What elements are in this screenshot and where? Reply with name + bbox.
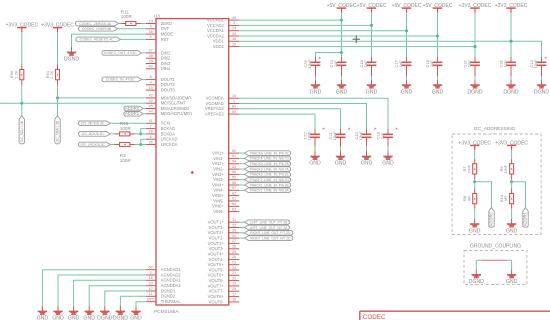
svg-text:LRCKAD: LRCKAD: [161, 137, 178, 142]
svg-text:VOUT3+: VOUT3+: [208, 241, 225, 246]
resistor R10 0R: [510, 188, 514, 208]
junction ADDR0: [473, 180, 476, 183]
svg-text:48: 48: [149, 30, 153, 34]
pin 49 VCCAD1: [207, 16, 239, 23]
pin 13 ZERO: [146, 19, 173, 26]
net flag ADDR1: [523, 208, 529, 228]
svg-text:60: 60: [232, 105, 236, 109]
svg-text:100R: 100R: [120, 126, 132, 131]
pin 11 DGND2: [146, 292, 176, 299]
wire DGND to pin row y=296.3: [120, 296, 145, 306]
wire VIN row 179.7: [239, 179, 244, 181]
wire GND to pin row y=269.7: [42, 270, 145, 306]
svg-text:PCM3168A: PCM3168A: [154, 309, 179, 315]
svg-text:GND: GND: [336, 89, 348, 95]
net flag RIGHT_LINE_OUT_P/7.2D: [245, 231, 293, 236]
svg-text:27: 27: [232, 239, 236, 243]
power +3V3_CODEC col x=511.0: [495, 3, 528, 13]
net flag I2C_SCL/1.3B: [19, 116, 24, 144]
wire flag to R15: [110, 133, 114, 135]
wire flag to DOUT1: [142, 78, 146, 80]
capacitor C18 1uF: [433, 59, 443, 68]
capacitor C17 1uF: [402, 59, 412, 68]
svg-text:RIGHT_LINE_OUT_N/7.2C: RIGHT_LINE_OUT_N/7.2C: [250, 236, 291, 240]
pin 4 RST: [146, 35, 170, 42]
svg-text:13: 13: [149, 19, 153, 23]
svg-text:63: 63: [232, 207, 236, 211]
pin 59 AREFAD2: [205, 110, 239, 117]
svg-text:*: *: [395, 127, 398, 134]
wire cap to ground: [371, 68, 373, 76]
net flag TRACK1_LINE_IN_P/6.2B: [245, 183, 291, 188]
wire VCCAD2 row to +5V col2: [239, 24, 371, 26]
power +3V3_CODEC (R60 column): [5, 23, 38, 33]
svg-text:DGND: DGND: [534, 89, 550, 95]
svg-text:11: 11: [149, 292, 153, 296]
ground GND (bottom): [37, 306, 49, 320]
svg-text:33: 33: [149, 282, 153, 286]
wire resistor to ground: [511, 209, 513, 219]
svg-text:TRACK3_LINE_IN_P/6.7B: TRACK3_LINE_IN_P/6.7B: [250, 162, 290, 166]
capacitor C31 1uF: [506, 59, 516, 68]
svg-text:1uF: 1uF: [429, 60, 434, 67]
svg-text:*: *: [318, 56, 321, 63]
svg-text:VOUT3-: VOUT3-: [209, 246, 225, 251]
ground GND (bottom): [52, 306, 64, 320]
svg-text:53: 53: [232, 165, 236, 169]
svg-text:VOUT1+: VOUT1+: [208, 220, 225, 225]
svg-text:18: 18: [232, 298, 236, 302]
pin 30 VOUT2-: [209, 234, 240, 241]
svg-text:VOUT8+: VOUT8+: [208, 294, 225, 299]
svg-text:62: 62: [232, 191, 236, 195]
svg-text:37: 37: [149, 49, 153, 53]
svg-text:VOUT7+: VOUT7+: [208, 283, 225, 288]
svg-text:MODE: MODE: [161, 32, 174, 37]
ground DGND: [503, 80, 519, 96]
svg-text:*: *: [545, 56, 548, 63]
wire VIN row 153.1: [239, 152, 244, 154]
svg-text:32: 32: [232, 223, 236, 227]
wire ADDR1 to pin 44: [143, 113, 146, 115]
svg-text:64: 64: [232, 202, 236, 206]
I2C_ADDRESSING section box: [452, 134, 541, 234]
svg-text:29: 29: [232, 229, 236, 233]
pin 26 VOUT4-: [209, 255, 240, 262]
wire VOUT row 238.1: [239, 237, 244, 239]
wire supply to resistor: [474, 150, 476, 159]
svg-text:DIN4: DIN4: [161, 66, 171, 71]
svg-text:GND: GND: [52, 316, 64, 320]
wire VIN row 169.1: [239, 168, 244, 170]
ground GND: [336, 80, 348, 96]
pin 27 VOUT3+: [208, 239, 240, 246]
pin 3 VCCAD2: [207, 21, 239, 28]
wire supply column: [406, 13, 408, 57]
svg-text:52: 52: [232, 149, 236, 153]
svg-text:41: 41: [149, 119, 153, 123]
wire R61 top: [57, 32, 59, 64]
svg-text:DGND: DGND: [503, 89, 519, 95]
svg-text:10uF: 10uF: [332, 131, 337, 141]
resistor R9 DNF: [510, 159, 514, 179]
svg-text:AGNDDA2: AGNDDA2: [161, 283, 182, 288]
svg-text:DIN3: DIN3: [161, 61, 171, 66]
pin 24 VCCDA1: [207, 27, 239, 34]
wire junction to ADDR1 flag: [512, 182, 526, 208]
svg-text:CODEC_ZERO/5.4D: CODEC_ZERO/5.4D: [79, 22, 112, 26]
svg-text:9: 9: [150, 81, 152, 85]
svg-text:VOUT2-: VOUT2-: [209, 236, 225, 241]
resistor R7 DNF: [473, 159, 477, 179]
ground DGND (coupling): [469, 270, 485, 286]
pin 25 VOUT4+: [208, 250, 240, 257]
svg-text:DNF: DNF: [503, 164, 508, 173]
pin 61 VIN5-: [213, 197, 239, 204]
wire GND to pin row y=285.7: [89, 286, 146, 306]
power +3V3_CODEC col x=475.0: [459, 3, 492, 13]
svg-text:10uF: 10uF: [533, 59, 538, 69]
pin 39 DIN3: [146, 59, 171, 66]
wire VCOM row 108.8 to cap C21: [239, 109, 340, 129]
svg-text:CODEC_IN_4T/3C: CODEC_IN_4T/3C: [106, 78, 136, 82]
wire LRCK branch to LRCKAD: [141, 139, 146, 144]
wire R15 to BCKDA: [135, 133, 146, 135]
svg-text:GND: GND: [432, 89, 444, 95]
resistor R8 0R: [473, 188, 477, 208]
pin 37 DIN1: [146, 49, 171, 56]
ground GND: [469, 219, 481, 235]
ground GND (bottom): [68, 306, 80, 320]
svg-text:VIN4+: VIN4+: [212, 182, 224, 187]
net flag ADDR0 (pin 45): [124, 106, 143, 111]
wire R60 bottom to SCL net: [21, 85, 23, 116]
svg-text:50: 50: [149, 266, 153, 270]
svg-text:DGND: DGND: [113, 316, 129, 320]
svg-text:*: *: [322, 127, 325, 134]
ground GND (C19): [361, 151, 373, 167]
svg-text:25: 25: [232, 250, 236, 254]
capacitor C36 10uF (bulk): [316, 53, 342, 58]
power +5V_CODEC col x=406.5: [392, 3, 422, 13]
svg-text:RIGHT_LINE_OUT_P/7.2D: RIGHT_LINE_OUT_P/7.2D: [250, 231, 291, 235]
svg-text:ADDR1: ADDR1: [523, 211, 528, 226]
svg-text:1uF: 1uF: [467, 60, 472, 67]
pin 31 VOUT1+: [208, 218, 240, 225]
net flag TRACK3_LINE_IN_P/6.7B: [245, 162, 291, 167]
svg-text:DGND: DGND: [469, 279, 485, 285]
svg-text:GND: GND: [361, 161, 373, 167]
net flag CODEC_ZERO/5.4D: [75, 21, 118, 26]
svg-text:LRCKDA: LRCKDA: [161, 142, 178, 147]
svg-text:5: 5: [150, 25, 152, 29]
svg-text:VREFAD2: VREFAD2: [205, 106, 225, 111]
svg-text:40: 40: [149, 65, 153, 69]
svg-text:TRACK2_LINE_IN_P/6.2E: TRACK2_LINE_IN_P/6.2E: [250, 173, 290, 177]
svg-text:47: 47: [149, 287, 153, 291]
svg-text:VIN6+: VIN6+: [212, 204, 224, 209]
wire supply column: [341, 13, 343, 57]
wire R11 to pin 13: [141, 23, 146, 25]
svg-text:GND: GND: [382, 161, 394, 167]
svg-text:2.2K: 2.2K: [13, 70, 18, 79]
junction col x=371.5: [370, 24, 373, 27]
svg-text:10: 10: [149, 86, 153, 90]
svg-text:VCCAD2: VCCAD2: [207, 23, 224, 28]
capacitor C28 1uF: [383, 131, 393, 140]
wire flag to DIN1: [142, 52, 146, 54]
wire C13 to ground: [541, 68, 543, 76]
svg-text:I2C_SCL/1.3B: I2C_SCL/1.3B: [20, 120, 24, 142]
svg-text:46: 46: [232, 37, 236, 41]
svg-text:AGNDAD1: AGNDAD1: [161, 267, 182, 272]
svg-text:I2C_SDA/1.3B: I2C_SDA/1.3B: [56, 120, 60, 142]
svg-text:38: 38: [149, 54, 153, 58]
svg-text:VIN3-: VIN3-: [213, 177, 224, 182]
junction SDA: [56, 96, 59, 99]
pin 29 VOUT2+: [208, 229, 240, 236]
svg-text:I2S_BCK/5.3C: I2S_BCK/5.3C: [82, 132, 105, 136]
wire R61 bottom to SDA net: [57, 85, 59, 116]
pin 32 VOUT1-: [209, 223, 240, 230]
svg-text:56: 56: [232, 170, 236, 174]
svg-text:OVF: OVF: [161, 26, 170, 31]
pin 18 AGNDDA1: [146, 276, 182, 283]
net flag I2S_BCK/5.3C: [79, 132, 111, 137]
resistor R61 2.2K: [56, 64, 60, 84]
pin 10 DOUT3: [146, 86, 176, 93]
wire junction to ADDR0 flag: [475, 182, 492, 208]
power +3V3_CODEC (R9 column): [495, 140, 528, 150]
svg-text:1: 1: [233, 99, 235, 103]
wire flag OVER to pin 5: [118, 28, 146, 30]
junction col x=341.5: [340, 19, 343, 22]
pin 9 DOUT2: [146, 81, 176, 88]
wire supply column: [474, 13, 476, 57]
GROUND_COUPLING section box: [464, 250, 527, 284]
junction col x=475.0: [474, 45, 477, 48]
wire flag to R3: [110, 144, 114, 146]
svg-text:VOUT5+: VOUT5+: [208, 262, 225, 267]
pin 41 SCKI: [146, 119, 171, 126]
ground GND: [506, 219, 518, 235]
svg-text:0R: 0R: [503, 196, 508, 201]
svg-text:AGNDAD2: AGNDAD2: [161, 272, 182, 277]
capacitor C15 1uF: [367, 59, 377, 68]
svg-text:MS/ADR0/MD0: MS/ADR0/MD0: [161, 106, 190, 111]
svg-text:GND: GND: [469, 228, 481, 234]
resistor R11 100R: [121, 22, 141, 26]
svg-text:51: 51: [232, 154, 236, 158]
ground DGND (MODE): [64, 47, 80, 63]
wire flag RESET to pin 4: [121, 38, 146, 40]
svg-text:4: 4: [150, 35, 152, 39]
svg-text:36: 36: [149, 140, 153, 144]
svg-text:DOUT1: DOUT1: [161, 77, 176, 82]
svg-text:100R: 100R: [120, 158, 132, 163]
wire VOUT row 222.2: [239, 221, 244, 223]
pin 28 BCKDA: [146, 130, 175, 137]
ground GND (bottom): [83, 306, 95, 320]
svg-text:VDD2: VDD2: [213, 44, 225, 49]
svg-text:I2S_LRCK/5.3C: I2S_LRCK/5.3C: [81, 143, 106, 147]
ground GND (coupling): [506, 270, 518, 286]
junction BCK: [139, 132, 142, 135]
net flag TRACK2_LINE_IN_P/6.2E: [245, 172, 291, 177]
wire GND to pin row y=301.7: [136, 302, 146, 306]
net bridge DGND-GND: [476, 259, 511, 261]
svg-text:DGND2: DGND2: [161, 294, 176, 299]
wire flag to R11: [119, 23, 121, 25]
net flag I2S_LRCK/5.3C: [79, 142, 111, 147]
wire VIN row 163.8: [239, 163, 244, 165]
capacitor C32 1uF: [470, 59, 480, 68]
svg-text:GND: GND: [83, 316, 95, 320]
power +3V3_CODEC (R7 column): [458, 140, 491, 150]
svg-text:DIN2: DIN2: [161, 56, 171, 61]
svg-text:26: 26: [232, 255, 236, 259]
svg-text:31: 31: [232, 218, 236, 222]
svg-text:30: 30: [232, 234, 236, 238]
part origin mark U3: [191, 171, 194, 174]
svg-text:21: 21: [232, 271, 236, 275]
svg-text:10uF: 10uF: [307, 59, 312, 69]
svg-text:GND: GND: [335, 161, 347, 167]
svg-text:2: 2: [150, 271, 152, 275]
sheet frame corner: [360, 311, 550, 320]
svg-text:MDO/ADR1/MD1: MDO/ADR1/MD1: [161, 111, 193, 116]
wire VIN row 158.4: [239, 157, 244, 159]
wire VIN row 190.3: [239, 189, 244, 191]
svg-text:TRACK2_LINE_IN_N/6.2D: TRACK2_LINE_IN_N/6.2D: [249, 178, 289, 182]
svg-text:GND: GND: [309, 161, 321, 167]
svg-text:28: 28: [149, 130, 153, 134]
net flag CODEC_RESET/5.4C: [76, 37, 121, 42]
svg-text:SCKI: SCKI: [161, 121, 171, 126]
svg-text:15: 15: [232, 94, 236, 98]
wire R3 to LRCKDA: [135, 144, 146, 146]
svg-text:MDI/SDA/DEMP: MDI/SDA/DEMP: [161, 95, 192, 100]
wire DGND to pin row y=291.0: [105, 291, 146, 306]
wire MODE pin 48 to DGND: [72, 34, 146, 47]
svg-text:DOUT2: DOUT2: [161, 82, 176, 87]
svg-text:ADDR0: ADDR0: [489, 211, 494, 226]
wire cap to ground: [340, 140, 342, 146]
svg-text:1uF: 1uF: [398, 60, 403, 67]
svg-text:VIN5-: VIN5-: [213, 198, 224, 203]
svg-text:U3: U3: [154, 14, 160, 20]
svg-text:VIN5+: VIN5+: [212, 193, 224, 198]
wire resistor to ground: [474, 209, 476, 219]
svg-text:VOUT6-: VOUT6-: [209, 278, 225, 283]
svg-text:54: 54: [232, 160, 236, 164]
net flag CODEC_IN_4T/3C: [102, 77, 142, 82]
ground DGND: [467, 80, 483, 96]
svg-text:VIN2-: VIN2-: [213, 167, 224, 172]
wire VCOM row 98.2 to cap C28: [239, 98, 388, 129]
svg-text:BCKAD: BCKAD: [161, 126, 175, 131]
svg-text:VCOMAD: VCOMAD: [206, 101, 224, 106]
wire GND to pin row y=275.0: [58, 275, 146, 306]
svg-text:43: 43: [149, 94, 153, 98]
svg-text:VIN3+: VIN3+: [212, 172, 224, 177]
net flag TRACK4_LINE_IN_P/6.7E: [245, 151, 291, 156]
svg-text:23: 23: [232, 261, 236, 265]
wire VCOM row 103.5 to cap C19: [239, 104, 366, 130]
svg-text:DGND1: DGND1: [161, 288, 176, 293]
svg-text:GND: GND: [506, 228, 518, 234]
svg-text:VIN6-: VIN6-: [213, 209, 224, 214]
svg-text:3: 3: [233, 21, 235, 25]
pin 42 MC/SCL/FMT: [146, 99, 187, 106]
wire C36 to ground: [315, 68, 317, 76]
pin 40 DIN4: [146, 65, 171, 72]
capacitor C13 10uF (bulk): [537, 59, 547, 68]
svg-text:VOUT1-: VOUT1-: [209, 225, 225, 230]
svg-text:19: 19: [232, 282, 236, 286]
svg-text:24: 24: [232, 266, 236, 270]
wire VCCDA1 row to +5V col3: [239, 30, 406, 32]
wire VOUT row 232.8: [239, 232, 244, 234]
svg-text:42: 42: [149, 99, 153, 103]
svg-text:GND: GND: [37, 316, 49, 320]
svg-text:ZERO: ZERO: [161, 21, 173, 26]
svg-text:AGNDDA1: AGNDDA1: [161, 278, 182, 283]
wire cap to ground: [387, 140, 389, 146]
ground GND (C22): [309, 151, 321, 167]
svg-text:DGND: DGND: [64, 57, 80, 63]
svg-text:GND: GND: [68, 316, 80, 320]
svg-text:CODEC_OUT_4T/3C: CODEC_OUT_4T/3C: [104, 51, 137, 55]
wire cap to ground: [406, 68, 408, 76]
svg-text:1uF: 1uF: [333, 60, 338, 67]
ground GND (C36): [310, 80, 322, 96]
cross mark: [353, 35, 361, 43]
svg-text:*: *: [348, 127, 351, 134]
svg-text:1uF: 1uF: [503, 60, 508, 67]
svg-text:VOUT4-: VOUT4-: [209, 257, 225, 262]
junction ADDR1: [510, 180, 513, 183]
svg-text:LEFT_LINE_OUT_N/7.2A: LEFT_LINE_OUT_N/7.2A: [250, 226, 289, 230]
pin 50 AGNDAD1: [146, 266, 182, 273]
svg-text:VCCDA2: VCCDA2: [207, 33, 224, 38]
svg-text:GND: GND: [130, 316, 142, 320]
svg-text:VCCAD1: VCCAD1: [207, 18, 224, 23]
capacitor C14 1uF: [337, 59, 347, 68]
junction VDD1 col6: [510, 40, 513, 43]
svg-text:20: 20: [232, 287, 236, 291]
power +5V_CODEC col x=437.5: [423, 3, 453, 13]
svg-text:GROUND_COUPLING: GROUND_COUPLING: [470, 243, 521, 249]
wire VCCAD1 row to +5V col1: [239, 19, 341, 21]
svg-text:CODEC_RESET/5.4C: CODEC_RESET/5.4C: [80, 38, 115, 42]
svg-text:GND: GND: [506, 279, 518, 285]
svg-text:34: 34: [232, 32, 236, 36]
net flag RIGHT_LINE_OUT_N/7.2C: [245, 236, 293, 241]
junction LRCK: [139, 143, 142, 146]
pin 60 VREFAD2: [205, 105, 239, 112]
net flag TRACK2_LINE_IN_N/6.2D: [245, 177, 291, 182]
svg-text:CODEC: CODEC: [363, 314, 386, 320]
junction col x=511.0: [510, 40, 513, 43]
net flag TRACK1_LINE_IN_N/6.2A: [245, 188, 291, 193]
svg-text:0R: 0R: [466, 196, 471, 201]
pin 2 AGNDAD2: [146, 271, 182, 278]
capacitor C19 10uF: [362, 131, 372, 140]
svg-text:VIN2+: VIN2+: [212, 161, 224, 166]
svg-text:ADDR0: ADDR0: [125, 106, 140, 111]
net flag I2S_MCK/5.3C: [79, 121, 111, 126]
